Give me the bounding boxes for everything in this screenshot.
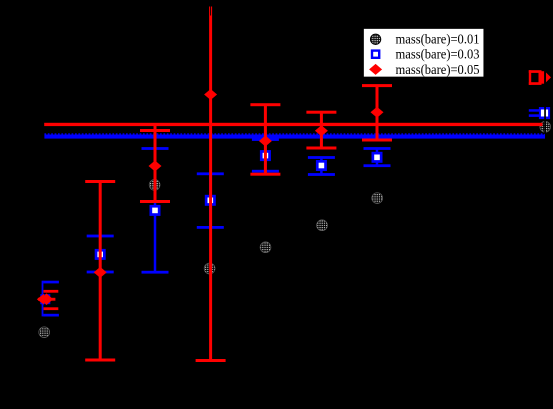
svg-text:mass(bare)=0.03: mass(bare)=0.03 [396, 48, 480, 63]
svg-text:mass(bare)=0.05: mass(bare)=0.05 [396, 63, 480, 78]
svg-text:mass(bare)=0.01: mass(bare)=0.01 [396, 33, 480, 48]
